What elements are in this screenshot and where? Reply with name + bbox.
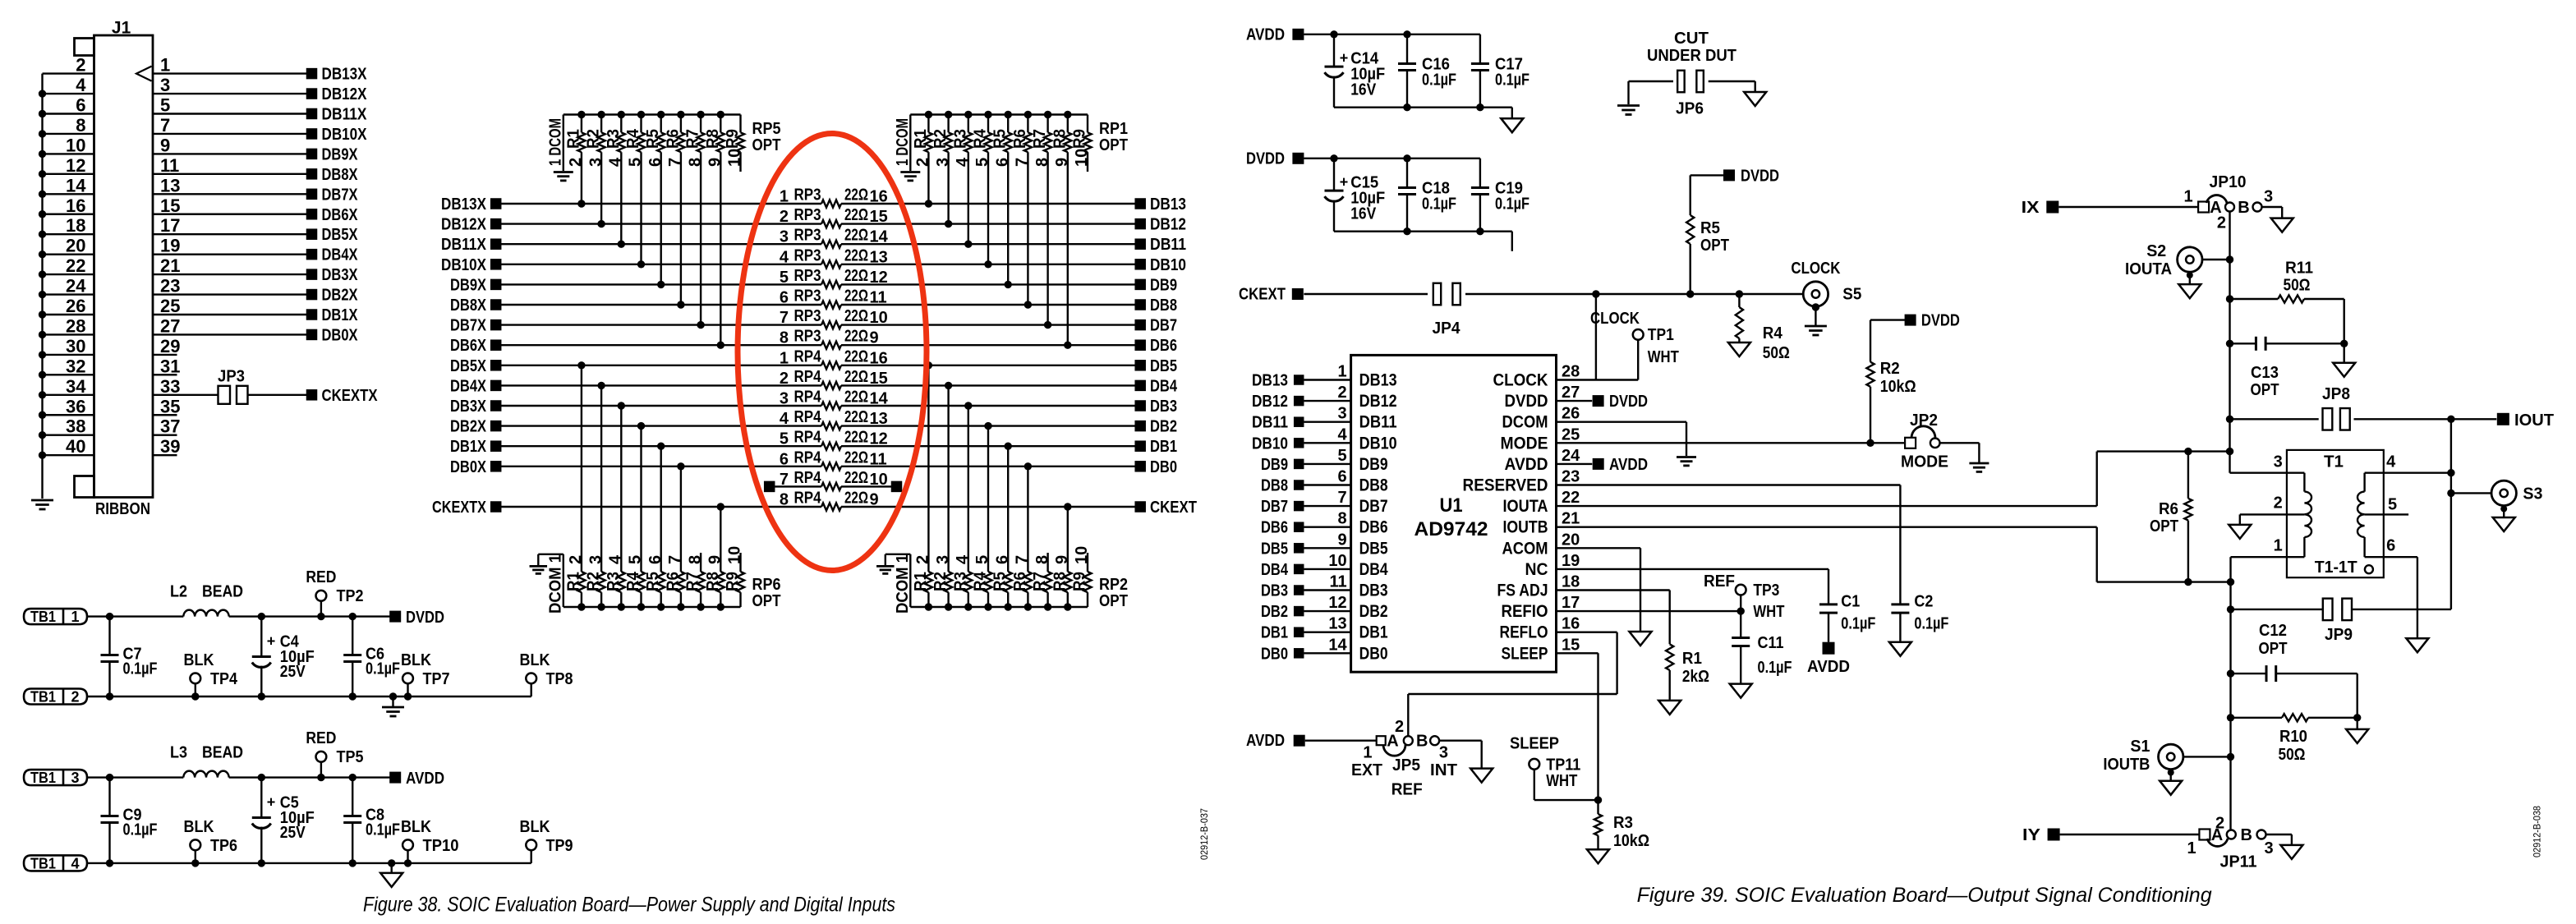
resistor RP1 R1: [925, 111, 932, 118]
svg-text:DB12: DB12: [1150, 216, 1186, 234]
wire RP5 R2 to row 1: [600, 152, 602, 223]
svg-text:BLK: BLK: [184, 818, 214, 836]
resistor RP5 R8: [717, 111, 724, 118]
svg-text:22Ω: 22Ω: [844, 469, 868, 487]
svg-text:MODE: MODE: [1501, 434, 1548, 453]
testpoint TP5 RED: [317, 774, 324, 781]
wire DB12 row right: [841, 223, 1135, 224]
svg-text:10: 10: [1328, 552, 1346, 570]
node DB13 (U1): [1294, 375, 1304, 385]
svg-text:CKEXT: CKEXT: [1239, 286, 1286, 304]
svg-text:16V: 16V: [1350, 80, 1377, 99]
wire J1 pin 25 to DB1X: [153, 314, 306, 315]
svg-text:S3: S3: [2523, 485, 2542, 503]
wire RP6 R9 stub: [739, 553, 741, 572]
svg-text:R1: R1: [912, 129, 930, 149]
svg-text:DB8: DB8: [1261, 477, 1288, 495]
svg-text:DB8X: DB8X: [322, 166, 359, 184]
jumper JP2 MODE: [1905, 438, 1916, 448]
svg-text:0.1µF: 0.1µF: [1495, 71, 1529, 89]
ground triangle T1 pin2: [2229, 525, 2251, 539]
svg-text:DB9: DB9: [1359, 455, 1388, 474]
pin 5 DB9 input: [1304, 463, 1350, 465]
wire RP4 pin7 left: [775, 485, 821, 487]
connector J1 bottom notch: [75, 476, 94, 498]
svg-text:R8: R8: [1051, 129, 1069, 149]
node DVDD (R5): [1723, 169, 1735, 181]
svg-text:DCOM 1: DCOM 1: [894, 554, 912, 614]
svg-text:3: 3: [1337, 405, 1346, 423]
jumper JP5 pin3: [1430, 736, 1439, 745]
wire T1 pin4: [2365, 472, 2451, 474]
svg-text:JP2: JP2: [1910, 411, 1938, 430]
svg-text:36: 36: [66, 396, 85, 416]
svg-text:1 DCOM: 1 DCOM: [546, 118, 564, 166]
wire J1 pin 40 stub: [43, 454, 94, 456]
svg-text:0.1µF: 0.1µF: [1841, 615, 1875, 633]
resistor RP6 R8: [717, 603, 724, 610]
svg-text:DB8: DB8: [1359, 476, 1388, 495]
svg-text:RP4: RP4: [794, 347, 822, 365]
terminal TB1 pin 1: [24, 609, 87, 624]
svg-text:OPT: OPT: [752, 136, 781, 154]
svg-text:B: B: [2238, 199, 2249, 217]
wire pin25 MODE to JP2: [1557, 442, 1906, 444]
svg-text:21: 21: [160, 255, 180, 276]
node RP4 pin7 stub left: [764, 481, 775, 493]
svg-text:TB1: TB1: [30, 770, 56, 786]
svg-text:IOUTA: IOUTA: [1503, 497, 1548, 516]
svg-text:R9: R9: [724, 572, 742, 591]
junction J1 bus pin 8: [39, 130, 46, 137]
inductor L2 BEAD: [183, 610, 228, 617]
resistor RP6 R6: [677, 603, 684, 610]
capacitor C13 OPT: [2226, 340, 2233, 347]
node DVDD: [389, 611, 401, 623]
wire JP10 pin3 to ground: [2262, 206, 2282, 208]
svg-text:2: 2: [76, 55, 85, 76]
svg-text:22Ω: 22Ω: [844, 328, 868, 346]
wire J1 pin 8 stub: [43, 133, 94, 135]
resistor RP3 5-12 22ohm: [821, 281, 841, 288]
jumper JP11 pin3: [2257, 830, 2266, 839]
svg-text:B: B: [1416, 733, 1428, 751]
resistor RP4 6-11 22ohm: [821, 462, 841, 470]
transformer T1 secondary winding: [2363, 473, 2365, 492]
svg-text:4: 4: [1337, 425, 1347, 444]
resistor RP3 3-14 22ohm: [821, 241, 841, 248]
svg-text:DB2X: DB2X: [450, 418, 487, 436]
wire RP6 R4 to row 11: [640, 426, 642, 572]
svg-text:RESERVED: RESERVED: [1463, 476, 1548, 495]
svg-text:0.1µF: 0.1µF: [366, 821, 400, 839]
junction J1 bus pin 12: [39, 170, 46, 177]
resistor RP2 R5: [1005, 603, 1012, 610]
svg-text:TP9: TP9: [546, 837, 573, 855]
junction RP5 R1 row 0: [577, 200, 585, 207]
jumper JP5 arc: [1383, 745, 1405, 756]
junction RP2 R8 row 15: [1064, 503, 1071, 510]
node AVDD (pin24): [1593, 458, 1604, 470]
node DB3 (right): [1134, 400, 1146, 411]
svg-text:BEAD: BEAD: [202, 744, 243, 762]
resistor RP1 R2: [945, 111, 952, 118]
svg-text:FS ADJ: FS ADJ: [1497, 582, 1548, 600]
svg-text:C13: C13: [2251, 364, 2279, 382]
svg-text:24: 24: [1562, 447, 1580, 465]
svg-text:1: 1: [780, 188, 789, 206]
net DCOM pin1 RP5: [563, 115, 564, 172]
wire J1 pin 35 stub: [153, 414, 177, 416]
svg-text:0.1µF: 0.1µF: [1914, 615, 1948, 633]
resistor RP5 R5: [657, 111, 665, 118]
ground triangle AVDD block: [1511, 108, 1513, 119]
wire RP2 R6 to row 13: [1027, 467, 1028, 572]
capacitor C18 0.1uF: [1403, 154, 1410, 162]
node DB1X (J1): [306, 309, 318, 320]
wire RP1 R5 to row 4: [1007, 152, 1009, 284]
wire IOUT node vertical: [2450, 419, 2452, 609]
svg-text:RP3: RP3: [794, 206, 821, 224]
svg-text:5: 5: [2388, 495, 2397, 513]
junction RP1 R3 row 2: [964, 241, 972, 248]
svg-text:R7: R7: [1031, 572, 1049, 591]
svg-text:7: 7: [1337, 489, 1346, 507]
resistor network RP6 bus: [563, 606, 741, 608]
svg-text:02912-B-038: 02912-B-038: [2533, 806, 2543, 857]
node DB9 (U1): [1294, 459, 1304, 470]
svg-text:DB6: DB6: [1359, 518, 1388, 537]
wire J1 pin 28 stub: [43, 333, 94, 335]
transformer T1 body: [2287, 450, 2384, 577]
svg-text:S2: S2: [2146, 242, 2166, 260]
svg-text:26: 26: [66, 296, 85, 316]
resistor RP5 R2: [597, 111, 605, 118]
svg-text:38: 38: [66, 416, 85, 437]
svg-text:B: B: [2240, 826, 2252, 844]
svg-text:32: 32: [66, 356, 85, 376]
svg-text:DB11: DB11: [1150, 236, 1186, 254]
node DB6 (right): [1134, 339, 1146, 351]
svg-text:4: 4: [76, 75, 86, 95]
svg-text:7: 7: [780, 309, 789, 327]
testpoint TP4 BLK: [191, 692, 199, 700]
node DB0X (J1): [306, 329, 318, 341]
resistor RP3 2-15 22ohm: [821, 220, 841, 228]
node DVDD (R2): [1905, 315, 1916, 326]
svg-text:1: 1: [2274, 537, 2283, 555]
ground earth DCOM: [1677, 456, 1696, 458]
resistor RP4 5-12 22ohm: [821, 443, 841, 450]
wire RP1 R7 to row 6: [1046, 152, 1048, 324]
wire J1 pin 38 stub: [43, 434, 94, 436]
svg-text:TP10: TP10: [423, 837, 459, 855]
resistor RP3 1-16 22ohm: [821, 200, 841, 207]
svg-text:27: 27: [160, 315, 180, 336]
ground triangle S1: [2160, 781, 2182, 795]
wire RP2 R5 to row 12: [1007, 446, 1009, 572]
junction RP5 R8 row 7: [717, 342, 724, 349]
svg-text:DB0: DB0: [1359, 644, 1388, 663]
pin 11 DB3 input: [1304, 589, 1350, 591]
wire top rail: [87, 615, 183, 617]
wire J1 pin 7 to DB10X: [153, 133, 306, 135]
svg-text:RP3: RP3: [794, 307, 821, 325]
wire DB2X row left: [501, 425, 821, 426]
svg-text:T1-1T: T1-1T: [2315, 559, 2357, 577]
svg-text:22Ω: 22Ω: [844, 206, 868, 224]
capacitor C14 10uF 16V electrolytic: [1330, 30, 1337, 38]
svg-text:RP3: RP3: [794, 227, 821, 245]
svg-text:2: 2: [780, 208, 789, 226]
svg-text:3: 3: [71, 770, 79, 786]
svg-text:2: 2: [2274, 494, 2283, 513]
svg-text:TB1: TB1: [30, 689, 56, 706]
svg-text:DB7: DB7: [1261, 498, 1288, 516]
svg-text:TP1: TP1: [1648, 326, 1674, 344]
svg-text:S1: S1: [2130, 738, 2150, 756]
junction RP6 R5 row 12: [657, 443, 665, 450]
wire DB1X row left: [501, 445, 821, 447]
ground triangle R1: [1658, 701, 1681, 715]
node DB10 (right): [1134, 259, 1146, 270]
resistor RP1 R4: [984, 111, 991, 118]
svg-text:3: 3: [1439, 744, 1448, 762]
testpoint TP2 RED: [317, 613, 324, 620]
svg-text:DB0: DB0: [1261, 645, 1288, 663]
svg-text:1: 1: [71, 609, 79, 625]
node DB13X (J1): [306, 68, 318, 80]
svg-text:RP4: RP4: [794, 388, 822, 407]
svg-text:BLK: BLK: [184, 651, 214, 669]
svg-text:OPT: OPT: [1099, 136, 1128, 154]
capacitor C9 0.1uF: [106, 774, 113, 781]
junction RP1 R5 row 4: [1005, 281, 1012, 288]
wire bottom rail: [87, 862, 531, 864]
resistor RP2 R1: [925, 603, 932, 610]
svg-text:5: 5: [1337, 447, 1346, 465]
svg-text:1: 1: [1337, 363, 1346, 381]
junction clock node TP1 branch: [1592, 290, 1599, 297]
wire top rail: [87, 776, 183, 778]
ground triangle R10: [2356, 718, 2357, 729]
node DB5 (U1): [1294, 543, 1304, 554]
svg-text:DVDD: DVDD: [406, 609, 444, 627]
svg-text:BEAD: BEAD: [202, 583, 243, 601]
junction J1 bus pin 40: [39, 451, 46, 458]
wire J1 pin 39 stub: [153, 454, 177, 456]
svg-text:R3: R3: [605, 129, 623, 149]
node CKEXT (right): [1134, 501, 1146, 513]
svg-text:R5: R5: [991, 129, 1010, 149]
wire DB0X row left: [501, 466, 821, 467]
junction J1 bus pin 22: [39, 270, 46, 278]
svg-text:BLK: BLK: [401, 651, 431, 669]
jumper JP4: [1433, 283, 1441, 306]
wire DVDD block stub: [1511, 232, 1513, 251]
resistor RP4 4-13 22ohm: [821, 422, 841, 430]
svg-text:0.1µF: 0.1µF: [123, 821, 158, 839]
svg-text:0.1µF: 0.1µF: [366, 660, 400, 678]
wire CKEXT row right: [841, 506, 1135, 508]
svg-text:REF: REF: [1704, 572, 1735, 591]
svg-text:DB0: DB0: [1150, 458, 1177, 476]
svg-text:DB2: DB2: [1261, 603, 1288, 621]
wire RP6 R7 stub: [700, 553, 701, 572]
svg-text:11: 11: [1329, 573, 1346, 591]
svg-text:RP5: RP5: [752, 120, 781, 138]
svg-text:IOUTA: IOUTA: [2125, 260, 2172, 278]
svg-text:REFLO: REFLO: [1500, 623, 1548, 642]
svg-text:DB3X: DB3X: [322, 266, 359, 284]
node DB9 (right): [1134, 279, 1146, 291]
pin 1 DB13 input: [1304, 379, 1350, 380]
svg-text:RP3: RP3: [794, 267, 821, 285]
terminal TB1 pin 2: [24, 689, 87, 705]
svg-text:DB2: DB2: [1359, 602, 1388, 621]
svg-text:24: 24: [66, 276, 86, 297]
svg-text:17: 17: [1562, 594, 1580, 612]
svg-text:CKEXTX: CKEXTX: [322, 387, 379, 405]
net DCOM pin1 RP2: [909, 554, 911, 607]
junction RP5 R2 row 1: [597, 220, 605, 228]
wire J1 pin 1 to DB13X: [153, 72, 306, 74]
svg-text:L2: L2: [170, 583, 187, 601]
svg-text:DB2X: DB2X: [322, 287, 359, 305]
svg-text:50Ω: 50Ω: [1763, 344, 1790, 362]
resistor RP2 R4: [984, 603, 991, 610]
capacitor C12 OPT: [2227, 669, 2234, 677]
svg-text:JP5: JP5: [1392, 756, 1420, 775]
svg-text:50Ω: 50Ω: [2284, 277, 2311, 295]
node DB2 (U1): [1294, 606, 1304, 617]
wire DB4 row right: [841, 384, 1135, 386]
resistor RP4 8-9 22ohm: [821, 503, 841, 510]
svg-text:JP8: JP8: [2322, 385, 2350, 403]
wire DB11 row right: [841, 243, 1135, 245]
svg-text:DB0X: DB0X: [322, 326, 359, 344]
wire T1 pin5 stub: [2365, 513, 2409, 515]
wire J1 pin 3 to DB12X: [153, 93, 306, 94]
svg-text:IY: IY: [2022, 826, 2041, 844]
svg-text:WHT: WHT: [1546, 772, 1577, 790]
net DCOM pin1 RP1: [909, 115, 911, 172]
svg-text:RP4: RP4: [794, 408, 822, 426]
svg-text:02912-B-037: 02912-B-037: [1200, 808, 1210, 860]
capacitor C19 0.1uF: [1479, 159, 1481, 188]
junction RP5 R3 row 2: [618, 241, 625, 248]
svg-text:DB7X: DB7X: [450, 317, 487, 335]
svg-text:R9: R9: [724, 129, 742, 149]
svg-text:DB1: DB1: [1261, 624, 1288, 642]
resistor RP5 R9: [739, 115, 741, 133]
svg-text:27: 27: [1562, 384, 1580, 402]
wire J1 pin 31 stub: [153, 374, 177, 375]
svg-text:IOUTB: IOUTB: [1503, 518, 1548, 537]
resistor RP3 4-13 22ohm: [821, 260, 841, 268]
svg-text:AVDD: AVDD: [1609, 456, 1648, 474]
junction RP6 R4 row 11: [637, 422, 645, 430]
jumper JP11 pin1: [2199, 830, 2210, 840]
jumper JP6: [1677, 71, 1684, 93]
junction RP6 R8 row 15: [717, 503, 724, 510]
svg-text:IX: IX: [2022, 199, 2040, 217]
svg-text:R6: R6: [664, 129, 682, 149]
pin 12 DB2 input: [1304, 610, 1350, 612]
red highlight ellipse: [738, 134, 927, 571]
svg-text:Figure 39. SOIC Evaluation Boa: Figure 39. SOIC Evaluation Board—Output …: [1637, 884, 2212, 907]
svg-text:2: 2: [1337, 384, 1346, 402]
svg-text:DB3: DB3: [1261, 582, 1288, 600]
node DB3 (U1): [1294, 585, 1304, 595]
ground triangle on bottom rail: [388, 859, 395, 867]
svg-text:DB7: DB7: [1359, 497, 1388, 516]
svg-text:R8: R8: [704, 129, 722, 149]
ground earth on bottom rail: [389, 692, 397, 700]
svg-text:Figure 38. SOIC Evaluation Boa: Figure 38. SOIC Evaluation Board—Power S…: [363, 894, 895, 917]
svg-text:17: 17: [160, 215, 180, 236]
svg-text:DB11: DB11: [1359, 413, 1397, 432]
svg-text:DB12X: DB12X: [322, 85, 368, 103]
resistor RP1 R5: [1005, 111, 1012, 118]
junction RP5 R5 row 4: [657, 281, 665, 288]
resistor network RP2 bus: [910, 606, 1088, 608]
testpoint TP6 BLK: [191, 859, 199, 867]
svg-text:DB11: DB11: [1252, 414, 1288, 432]
svg-text:DB9: DB9: [1261, 456, 1288, 474]
svg-text:DB5: DB5: [1261, 540, 1288, 558]
jumper JP8: [2323, 408, 2333, 430]
svg-text:3: 3: [2264, 839, 2273, 857]
wire DB7X row left: [501, 324, 821, 325]
svg-text:DB9X: DB9X: [322, 145, 359, 163]
wire DB9 row right: [841, 283, 1135, 285]
svg-text:R7: R7: [684, 129, 702, 149]
svg-text:2: 2: [780, 370, 789, 388]
svg-text:2: 2: [2215, 815, 2224, 833]
wire RP1 R8 to row 7: [1067, 152, 1069, 345]
wire J1 pin 34 stub: [43, 394, 94, 396]
svg-text:DCOM 1: DCOM 1: [546, 554, 564, 614]
testpoint TP9 BLK: [531, 850, 532, 863]
wire JP11 pin3 to ground: [2266, 834, 2292, 835]
svg-text:22Ω: 22Ω: [844, 246, 868, 264]
wire pin18 FS ADJ to R1: [1557, 589, 1670, 591]
node RP4 pin10 stub right: [891, 481, 903, 493]
wire T1 pin3: [2230, 472, 2305, 474]
svg-text:0.1µF: 0.1µF: [1422, 195, 1456, 213]
svg-text:MODE: MODE: [1901, 453, 1948, 471]
wire J1 pin 12 stub: [43, 173, 94, 175]
wire J1 pin 33 to JP3: [153, 394, 218, 396]
wire J1 pin 2 stub: [43, 72, 94, 74]
junction T1 pin4 node: [2447, 469, 2454, 476]
jumper JP10 arc: [2206, 195, 2227, 203]
svg-text:DB2: DB2: [1150, 418, 1177, 436]
junction RP1 R4 row 3: [984, 260, 991, 268]
resistor RP6 R2: [597, 603, 605, 610]
svg-text:C1: C1: [1841, 593, 1860, 611]
svg-text:8: 8: [780, 329, 789, 347]
wire RP5 R8 to row 7: [720, 152, 721, 345]
junction J1 bus pin 6: [39, 110, 46, 117]
wire RP6 R3 to row 10: [620, 406, 622, 572]
svg-text:BLK: BLK: [520, 818, 550, 836]
svg-text:DB12: DB12: [1252, 393, 1288, 411]
wire J1 pin 11 to DB8X: [153, 173, 306, 175]
svg-text:INT: INT: [1430, 761, 1457, 779]
resistor R3 10kohm: [1597, 800, 1598, 814]
